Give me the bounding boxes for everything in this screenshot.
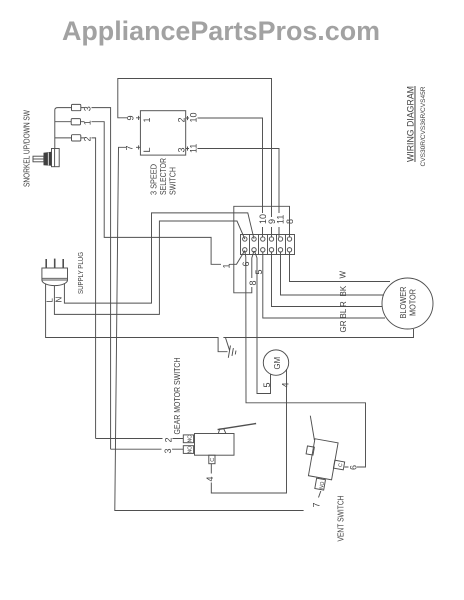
vent switch lever: [310, 416, 314, 440]
svg-text:L: L: [142, 147, 152, 152]
label 6 (block col1): [241, 258, 250, 268]
svg-text:SWITCH: SWITCH: [169, 167, 178, 195]
svg-text:10: 10: [189, 112, 199, 122]
svg-text:VENT SWITCH: VENT SWITCH: [337, 495, 346, 541]
wire 6: block col1 bottom to vent switch C: [245, 251, 366, 467]
svg-text:SUPPLY PLUG: SUPPLY PLUG: [76, 252, 85, 294]
label 4 (gear C wire): [205, 474, 214, 483]
svg-text:GM: GM: [273, 357, 282, 370]
wire R: block col4 bottom to blower motor: [272, 252, 383, 307]
svg-text:7: 7: [312, 502, 322, 507]
blower motor M1: [382, 278, 433, 329]
svg-text:5: 5: [262, 382, 272, 387]
selector switch box U1: [140, 111, 185, 155]
label 8 (wire): [248, 278, 257, 287]
svg-text:L: L: [46, 298, 55, 303]
wire 2: snorkel t2 to gear motor switch NC: [81, 138, 183, 439]
terminal 3 (snorkel): [72, 104, 81, 110]
svg-text:1: 1: [142, 117, 152, 122]
svg-text:3 SPEED: 3 SPEED: [150, 164, 159, 195]
svg-text:BK: BK: [339, 285, 348, 296]
svg-text:MOTOR: MOTOR: [409, 289, 418, 316]
svg-text:GR: GR: [339, 320, 348, 332]
svg-text:11: 11: [189, 144, 199, 153]
label 8 (block): [286, 217, 294, 227]
svg-text:6: 6: [349, 465, 359, 470]
label 9 (block): [268, 217, 276, 227]
svg-text:1: 1: [222, 263, 232, 268]
selector pin ticks: [139, 116, 188, 151]
svg-text:2: 2: [83, 136, 93, 141]
label 3 (gear wire): [163, 446, 172, 455]
svg-text:2: 2: [177, 117, 187, 122]
svg-text:SNORKEL UP/DOWN SW: SNORKEL UP/DOWN SW: [23, 110, 32, 187]
svg-text:BLOWER: BLOWER: [399, 286, 408, 318]
svg-text:N: N: [55, 297, 64, 303]
svg-text:3: 3: [177, 147, 187, 152]
wire N: plug N lead to terminal block col1 top: [54, 221, 244, 314]
svg-text:11: 11: [276, 215, 286, 224]
wire 7: selector pinL to vent switch NO: [115, 147, 304, 510]
wire 11: selector pin3 to block col5 top: [186, 149, 279, 238]
svg-text:3: 3: [163, 448, 173, 453]
wire 8 jumper: block col2 bottom to col6 top: [234, 206, 290, 292]
label 10 (block): [258, 213, 267, 227]
svg-text:W: W: [339, 271, 348, 279]
svg-text:1: 1: [83, 120, 93, 125]
wire 10: selector pin2 to block col3 top: [186, 118, 263, 238]
svg-text:NC: NC: [187, 435, 193, 442]
label 11 (block): [277, 213, 285, 227]
svg-text:7: 7: [125, 145, 135, 150]
terminal 2 (snorkel): [72, 135, 81, 141]
wire BL: block col3 bottom to blower motor: [263, 252, 385, 318]
wire L/GR: plug L lead to blower motor via ground: [46, 284, 414, 352]
ground chassis symbol: [222, 338, 238, 359]
wire E: plug right lead to terminal block col2 top: [64, 213, 254, 303]
wire 4: GM to gear motor switch C: [211, 369, 286, 493]
gear motor GM: [263, 350, 288, 375]
label 2 (gear wire): [163, 435, 172, 444]
terminal block TB1: [241, 235, 295, 255]
label BLOWER MOTOR: [399, 286, 418, 318]
svg-text:C: C: [338, 463, 345, 468]
terminal 1 (snorkel): [71, 119, 80, 125]
svg-text:CVS30R/CVS36R/CVS45R: CVS30R/CVS36R/CVS45R: [420, 86, 427, 166]
svg-text:4: 4: [281, 382, 291, 387]
svg-text:3: 3: [83, 106, 93, 111]
svg-text:GEAR MOTOR SWITCH: GEAR MOTOR SWITCH: [173, 357, 182, 434]
gear motor switch S2: [183, 424, 256, 464]
svg-text:AppliancePartsPros.com: AppliancePartsPros.com: [62, 16, 380, 46]
label 3 SPEED SELECTOR SWITCH: [150, 158, 178, 195]
wire 9: selector pin1 to block col4 top: [118, 79, 272, 238]
wire W: block col6 bottom to blower motor: [290, 252, 391, 282]
wire BK: block col5 bottom to blower motor: [281, 252, 385, 295]
svg-text:WIRING DIAGRAM: WIRING DIAGRAM: [406, 86, 417, 162]
svg-text:R: R: [339, 301, 348, 307]
supply plug P1: [42, 259, 68, 286]
svg-text:4: 4: [205, 476, 215, 481]
svg-text:NO: NO: [319, 481, 326, 489]
svg-text:SELECTOR: SELECTOR: [159, 158, 168, 195]
wire 3: snorkel t3 to gear motor switch NO: [81, 108, 183, 450]
svg-text:C: C: [210, 458, 216, 462]
wire 5: block col2 bottom to gear motor GM: [255, 251, 271, 394]
svg-text:NO: NO: [187, 446, 193, 453]
svg-text:8: 8: [285, 219, 295, 224]
svg-text:2: 2: [164, 437, 174, 442]
wire 7 tick to NO: [319, 491, 321, 498]
svg-text:8: 8: [248, 280, 258, 285]
wire 1: snorkel t1 to terminal block col1 bottom: [81, 122, 245, 265]
switch S1 snorkel up/down: [33, 108, 72, 167]
svg-text:BL: BL: [339, 308, 348, 318]
vent switch S3: [300, 438, 347, 493]
